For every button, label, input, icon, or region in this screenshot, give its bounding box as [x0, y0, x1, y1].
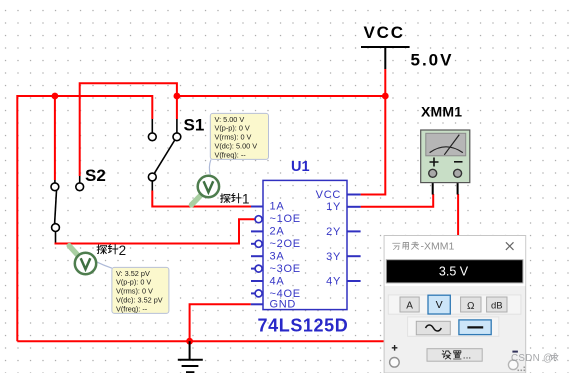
svg-text:V(rms): 0 V: V(rms): 0 V	[215, 133, 252, 142]
svg-text:74LS125D: 74LS125D	[258, 316, 349, 336]
svg-text:V(p-p): 0 V: V(p-p): 0 V	[116, 278, 151, 287]
svg-text:2A: 2A	[270, 226, 285, 238]
svg-text:VCC: VCC	[316, 189, 341, 201]
svg-text:~3OE: ~3OE	[270, 263, 301, 275]
svg-text:3A: 3A	[270, 251, 285, 263]
svg-text:3Y: 3Y	[326, 251, 341, 263]
svg-text:4A: 4A	[270, 276, 285, 288]
svg-text:2: 2	[119, 243, 127, 258]
svg-text:~1OE: ~1OE	[270, 213, 301, 225]
svg-text:V(freq): --: V(freq): --	[116, 304, 148, 313]
svg-text:V: 3.52 pV: V: 3.52 pV	[116, 269, 150, 278]
svg-text:XMM1: XMM1	[421, 104, 462, 120]
svg-text:4Y: 4Y	[326, 276, 341, 288]
svg-text:1A: 1A	[270, 201, 285, 213]
svg-text:-XMM1: -XMM1	[421, 241, 455, 253]
svg-text:V(dc): 5.00 V: V(dc): 5.00 V	[215, 142, 258, 151]
svg-text:1: 1	[242, 192, 250, 207]
svg-text:V: 5.00 V: V: 5.00 V	[215, 115, 245, 124]
svg-text:Ω: Ω	[467, 301, 475, 312]
svg-text:V(p-p): 0 V: V(p-p): 0 V	[215, 124, 250, 133]
svg-text:V: V	[436, 299, 443, 311]
svg-text:dB: dB	[491, 301, 503, 312]
svg-text:V(rms): 0 V: V(rms): 0 V	[116, 287, 153, 296]
svg-text:~2OE: ~2OE	[270, 238, 301, 250]
svg-text:1Y: 1Y	[326, 201, 341, 213]
svg-text:U1: U1	[291, 159, 310, 175]
svg-text:GND: GND	[270, 299, 297, 311]
svg-text:S2: S2	[85, 166, 106, 185]
svg-text:5.0V: 5.0V	[411, 51, 454, 70]
svg-text:...: ...	[463, 351, 471, 362]
svg-text:3.5 V: 3.5 V	[439, 265, 469, 279]
svg-text:VCC: VCC	[364, 23, 405, 42]
svg-text:2Y: 2Y	[326, 226, 341, 238]
svg-text:V(dc): 3.52 pV: V(dc): 3.52 pV	[116, 296, 163, 305]
svg-text:CSDN @.: CSDN @.	[511, 353, 556, 364]
svg-text:A: A	[406, 301, 413, 312]
svg-text:S1: S1	[184, 116, 205, 135]
svg-text:V(freq): --: V(freq): --	[215, 150, 247, 159]
